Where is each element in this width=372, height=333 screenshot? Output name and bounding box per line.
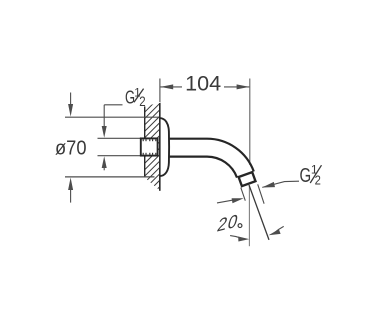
- threaded wall end: [141, 138, 158, 155]
- svg-text:20: 20: [215, 210, 241, 236]
- shower arm pipe inner edge: [169, 157, 238, 178]
- outlet collar: [239, 172, 256, 186]
- dim o70 bottom arrow: [68, 178, 73, 203]
- angle arc right with arrow: [269, 226, 284, 235]
- outlet left side extension line: [241, 188, 246, 201]
- svg-text:104: 104: [185, 72, 221, 96]
- dim o70 top line: [65, 116, 159, 118]
- outlet right side extension line: [258, 184, 264, 203]
- thread tick marks: [143, 139, 156, 154]
- label G1/2 wall leader: [104, 104, 122, 106]
- dim 104 left extension line: [159, 79, 161, 103]
- wall hatching: [138, 74, 170, 221]
- label G1/2 outlet leader with arrow: [262, 181, 299, 187]
- svg-text:ø70: ø70: [55, 136, 87, 159]
- shower arm pipe outer edge: [169, 139, 254, 172]
- angle vertical reference line: [248, 186, 250, 247]
- dim o70 bottom line: [65, 176, 155, 178]
- G1/2 wall upper arrow: [102, 105, 107, 138]
- label G1/2 wall text: [125, 87, 146, 109]
- outlet dim left arrow: [217, 198, 244, 203]
- label G1/2 outlet text: [300, 162, 322, 187]
- wall right edge: [159, 103, 161, 191]
- dim 104 line left segment with arrow: [160, 84, 182, 89]
- dim 104 line right segment with arrow: [224, 84, 249, 89]
- flange: [160, 118, 169, 176]
- angle arc left with arrow: [230, 236, 249, 242]
- angle 20 deg outlet axis line: [249, 185, 269, 240]
- dim o70 top arrow: [68, 93, 73, 117]
- thread bottom edge extension line: [98, 155, 142, 157]
- svg-text:2: 2: [315, 173, 321, 188]
- svg-text:G: G: [300, 164, 312, 187]
- thread top edge extension line: [98, 137, 142, 139]
- svg-text:2: 2: [139, 94, 145, 109]
- dim 104 right extension line (continues down to pipe outer edge): [249, 79, 251, 166]
- wall left edge: [144, 107, 146, 177]
- G1/2 wall lower arrow: [102, 156, 107, 170]
